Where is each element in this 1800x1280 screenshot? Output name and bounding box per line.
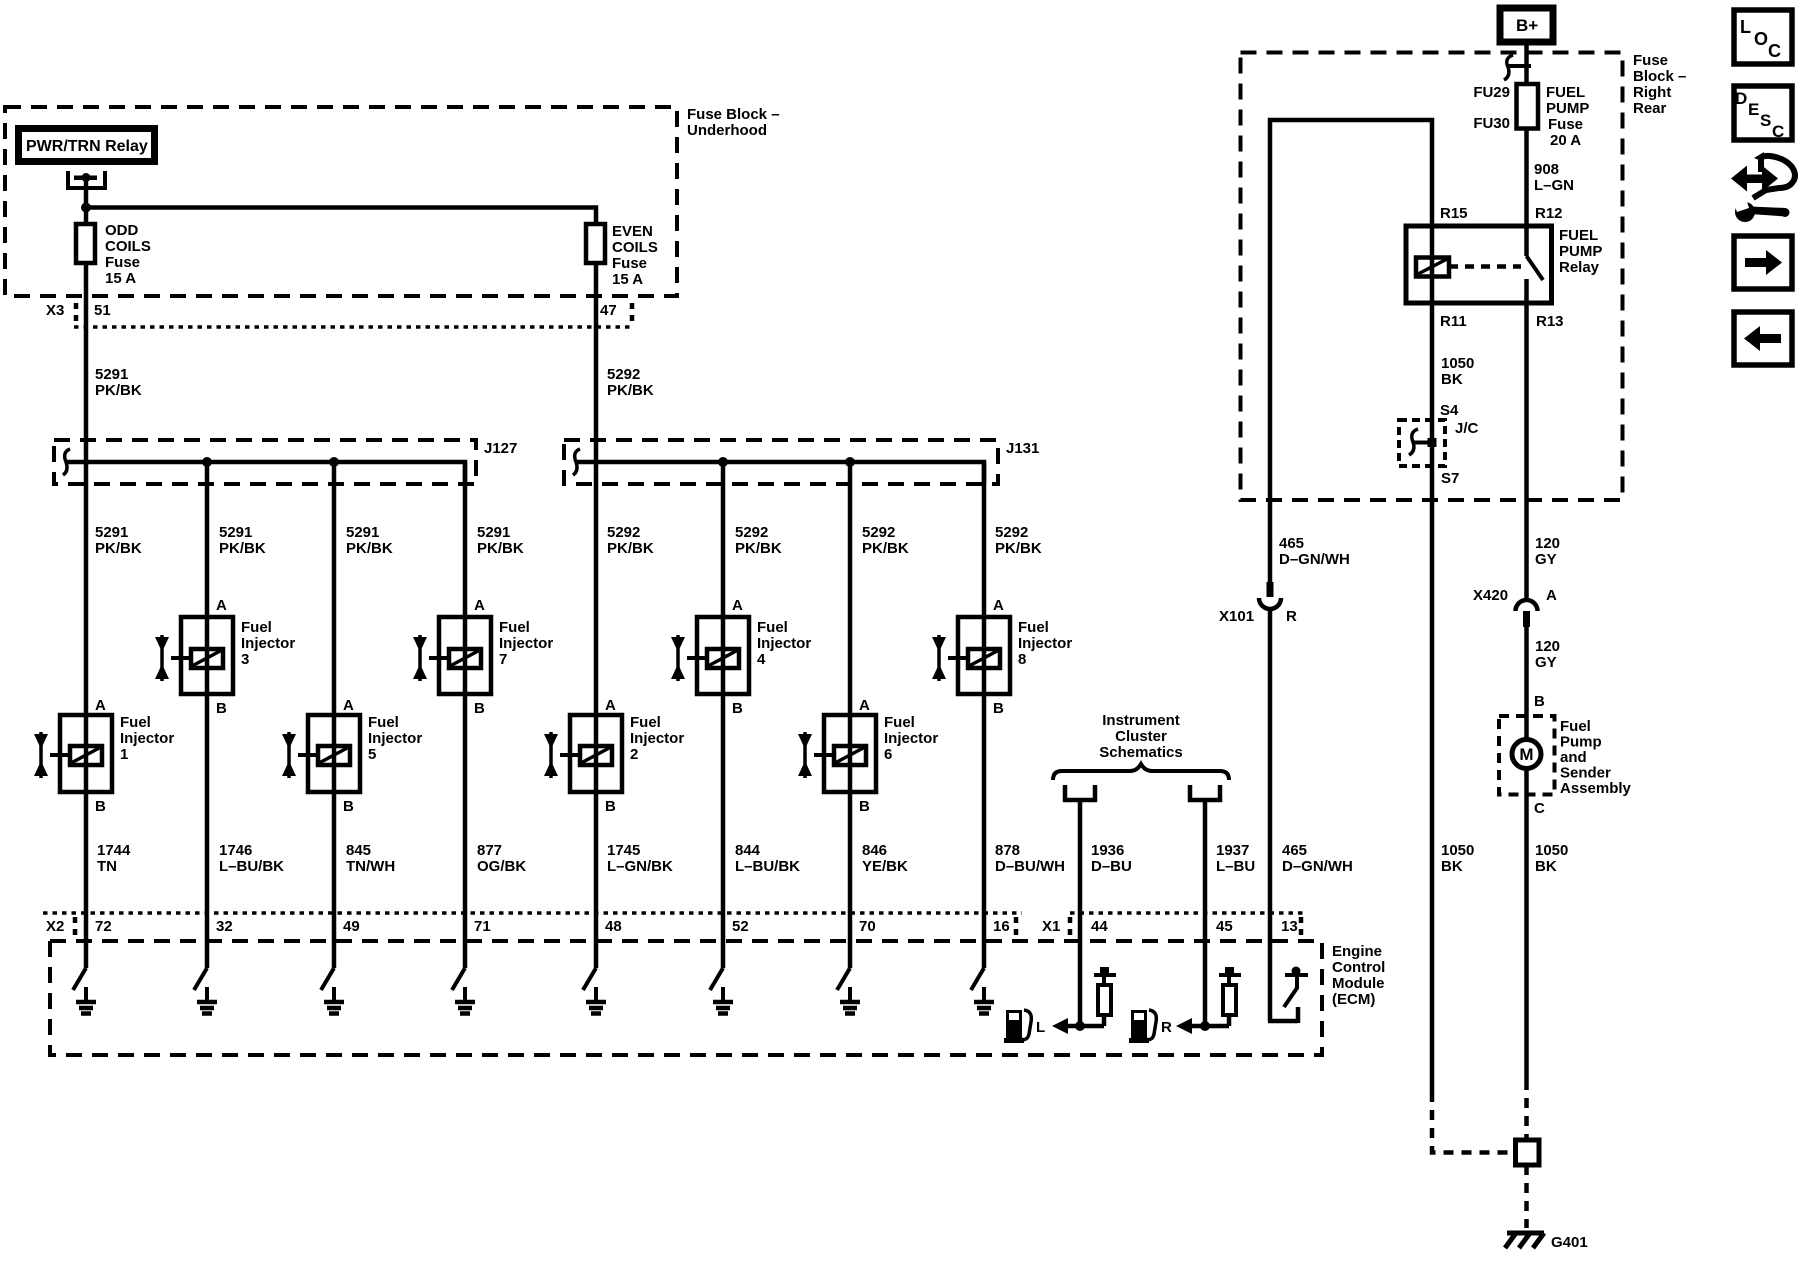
svg-text:BK: BK [1441, 371, 1463, 388]
svg-text:Sender: Sender [1560, 765, 1611, 782]
wire pump C down (1050 BK) [1524, 770, 1529, 1080]
fuel injector 6 [798, 697, 938, 815]
fuel injector 5 [282, 697, 422, 815]
splice J131 curl [573, 449, 580, 475]
splice J127 bus [66, 462, 465, 484]
svg-text:Fuse: Fuse [1548, 116, 1583, 133]
hidden ground wire from pump C [1524, 1080, 1529, 1140]
ECM pull-up resistor R [1227, 1015, 1232, 1026]
wire fuse to relay R12 (908 L-GN) [1524, 128, 1529, 226]
svg-text:49: 49 [343, 918, 360, 935]
svg-text:PK/BK: PK/BK [995, 540, 1042, 557]
svg-text:D–GN/WH: D–GN/WH [1279, 551, 1350, 568]
wire R11 to S4 (1050 BK) [1430, 303, 1435, 1092]
svg-text:Assembly: Assembly [1560, 780, 1632, 797]
wire injector 7 branch [463, 462, 468, 941]
wire cluster L sender to ECM pin 44 [1078, 802, 1083, 1026]
relay switch contact [1524, 226, 1529, 256]
svg-text:1746: 1746 [219, 842, 252, 859]
svg-text:D–BU/WH: D–BU/WH [995, 858, 1065, 875]
wire B+ to fuel pump fuse [1524, 42, 1529, 86]
wire injector 4 branch [721, 462, 726, 941]
connector X2/X1 row [43, 911, 1022, 915]
svg-text:PWR/TRN Relay: PWR/TRN Relay [26, 138, 148, 155]
svg-text:878: 878 [995, 842, 1020, 859]
fuel injector 4 [671, 597, 811, 717]
svg-text:PK/BK: PK/BK [607, 382, 654, 399]
fuse block underhood dashed box [5, 107, 677, 296]
junction dot [81, 203, 91, 213]
svg-text:L: L [1740, 17, 1751, 37]
hidden wire to G401 [1524, 1165, 1529, 1228]
svg-text:844: 844 [735, 842, 761, 859]
junction dots J131 [718, 457, 728, 467]
svg-text:BK: BK [1441, 858, 1463, 875]
fuel pump icon L [1004, 1010, 1031, 1043]
svg-text:TN: TN [97, 858, 117, 875]
svg-text:L–BU/BK: L–BU/BK [735, 858, 800, 875]
ECM output driver and ground (injector circuit 8) [971, 941, 994, 1014]
svg-text:3: 3 [241, 651, 249, 668]
svg-text:A: A [95, 697, 106, 714]
svg-text:D: D [1735, 89, 1747, 108]
splice J131 bus [576, 462, 984, 484]
svg-text:Cluster: Cluster [1115, 728, 1167, 745]
ECM fuel level input R: junction [1200, 1021, 1210, 1031]
svg-text:(ECM): (ECM) [1332, 991, 1375, 1008]
splice J127 dashed box [54, 440, 476, 484]
svg-text:47: 47 [600, 302, 617, 319]
svg-text:32: 32 [216, 918, 233, 935]
svg-text:5292: 5292 [607, 524, 640, 541]
svg-text:G401: G401 [1551, 1234, 1588, 1251]
svg-text:TN/WH: TN/WH [346, 858, 395, 875]
svg-text:Rear: Rear [1633, 100, 1667, 117]
fuse ODD COILS 15A [76, 224, 95, 263]
svg-text:B+: B+ [1516, 16, 1538, 35]
svg-text:A: A [605, 697, 616, 714]
svg-text:Fuel: Fuel [630, 714, 661, 731]
svg-text:1050: 1050 [1441, 842, 1474, 859]
svg-text:R: R [1286, 608, 1297, 625]
ECM output driver and ground (injector circuit 4) [452, 941, 475, 1014]
svg-text:Fuse: Fuse [1633, 52, 1668, 69]
wire EVEN fuse down through X3-47 [594, 263, 599, 462]
ground junction block [1516, 1140, 1540, 1165]
svg-text:PUMP: PUMP [1546, 100, 1589, 117]
svg-text:Right: Right [1633, 84, 1671, 101]
svg-text:Relay: Relay [1559, 259, 1600, 276]
svg-text:PK/BK: PK/BK [95, 540, 142, 557]
svg-text:1: 1 [120, 746, 128, 763]
relay dashed actuating link [1449, 264, 1521, 269]
wire injector 6 branch [848, 462, 853, 941]
splice J131 dashed box [564, 440, 998, 484]
svg-text:120: 120 [1535, 535, 1560, 552]
svg-text:1936: 1936 [1091, 842, 1124, 859]
svg-text:Injector: Injector [241, 635, 295, 652]
svg-text:44: 44 [1091, 918, 1108, 935]
svg-text:PK/BK: PK/BK [735, 540, 782, 557]
svg-text:1745: 1745 [607, 842, 640, 859]
wire R13 to X420 (120 GY) [1524, 303, 1529, 600]
svg-text:15 A: 15 A [612, 271, 643, 288]
svg-text:M: M [1519, 745, 1533, 764]
wire relay to ODD fuse [84, 180, 89, 226]
wire injector 8 branch [982, 462, 987, 941]
inline connector X420 pin A [1516, 600, 1538, 611]
svg-text:Underhood: Underhood [687, 122, 767, 139]
svg-text:B: B [993, 700, 1004, 717]
svg-text:13: 13 [1281, 918, 1298, 935]
svg-text:X3: X3 [46, 302, 64, 319]
svg-text:15 A: 15 A [105, 270, 136, 287]
svg-text:PK/BK: PK/BK [346, 540, 393, 557]
svg-text:5291: 5291 [477, 524, 510, 541]
svg-text:B: B [605, 798, 616, 815]
svg-text:5292: 5292 [607, 366, 640, 383]
svg-text:S: S [1760, 111, 1771, 130]
cluster connector L (fuel gauge left) [1063, 785, 1097, 802]
svg-text:Fuel: Fuel [757, 619, 788, 636]
svg-text:EVEN: EVEN [612, 223, 653, 240]
ECM output driver and ground (injector circuit 3) [321, 941, 344, 1014]
svg-text:52: 52 [732, 918, 749, 935]
svg-text:120: 120 [1535, 638, 1560, 655]
fuel pump icon R [1129, 1010, 1156, 1043]
wire injector 2 branch [594, 462, 599, 941]
svg-text:Fuel: Fuel [499, 619, 530, 636]
splice J127 curl [63, 449, 70, 475]
cluster connector R (fuel gauge right) [1188, 785, 1222, 802]
svg-text:O: O [1754, 29, 1768, 49]
svg-text:R13: R13 [1536, 313, 1564, 330]
svg-text:Schematics: Schematics [1099, 744, 1182, 761]
ECM dashed box [50, 941, 1322, 1055]
svg-text:5291: 5291 [95, 524, 128, 541]
wire ODD fuse down through X3-51 [84, 263, 89, 462]
svg-text:B: B [343, 798, 354, 815]
svg-text:4: 4 [757, 651, 766, 668]
svg-text:R: R [1161, 1019, 1172, 1036]
svg-text:D–BU: D–BU [1091, 858, 1132, 875]
icon LOC box [1734, 10, 1792, 64]
svg-text:S4: S4 [1440, 402, 1459, 419]
svg-text:Fuse Block –: Fuse Block – [687, 106, 780, 123]
svg-text:B: B [732, 700, 743, 717]
svg-text:PK/BK: PK/BK [607, 540, 654, 557]
svg-text:Fuel: Fuel [884, 714, 915, 731]
svg-text:OG/BK: OG/BK [477, 858, 526, 875]
svg-text:X420: X420 [1473, 587, 1508, 604]
svg-text:5291: 5291 [219, 524, 252, 541]
ECM pull-up resistor L [1102, 1015, 1107, 1026]
svg-text:A: A [1546, 587, 1557, 604]
svg-text:S7: S7 [1441, 470, 1459, 487]
svg-text:GY: GY [1535, 654, 1557, 671]
svg-text:48: 48 [605, 918, 622, 935]
svg-text:L–BU/BK: L–BU/BK [219, 858, 284, 875]
ground G401 [1505, 1233, 1544, 1248]
svg-text:C: C [1534, 800, 1545, 817]
svg-text:45: 45 [1216, 918, 1233, 935]
svg-text:Fuel: Fuel [241, 619, 272, 636]
fuse block right rear dashed box [1241, 53, 1623, 501]
svg-text:Injector: Injector [1018, 635, 1072, 652]
inline connector X101 pin R [1267, 582, 1274, 597]
svg-text:Injector: Injector [884, 730, 938, 747]
svg-text:6: 6 [884, 746, 892, 763]
svg-text:Injector: Injector [757, 635, 811, 652]
svg-text:Fuel: Fuel [120, 714, 151, 731]
svg-text:L–BU: L–BU [1216, 858, 1255, 875]
svg-text:COILS: COILS [612, 239, 658, 256]
svg-text:1744: 1744 [97, 842, 131, 859]
icon DESC box [1734, 86, 1792, 140]
ECM output driver and ground (injector circuit 6) [710, 941, 733, 1014]
icon forward arrow box [1734, 236, 1792, 289]
svg-text:Block –: Block – [1633, 68, 1686, 85]
svg-text:72: 72 [95, 918, 112, 935]
wire ECM pin13 up and over to relay R15 [1270, 120, 1432, 582]
svg-text:Injector: Injector [120, 730, 174, 747]
svg-text:Injector: Injector [499, 635, 553, 652]
svg-text:51: 51 [94, 302, 111, 319]
svg-text:L–GN/BK: L–GN/BK [607, 858, 673, 875]
svg-text:846: 846 [862, 842, 887, 859]
svg-text:A: A [343, 697, 354, 714]
svg-text:FU30: FU30 [1473, 115, 1510, 132]
fuse holder terminal FU29 [1508, 64, 1531, 68]
ECM fuel level input R: signal line with arrow [1188, 1024, 1229, 1029]
fuel pump relay box [1406, 226, 1552, 303]
wire injector 5 branch [332, 462, 337, 941]
svg-text:Engine: Engine [1332, 943, 1382, 960]
ECM fuel level input L: junction [1075, 1021, 1085, 1031]
svg-text:5: 5 [368, 746, 376, 763]
svg-text:A: A [732, 597, 743, 614]
fuse EVEN COILS 15A [586, 224, 605, 263]
svg-text:X1: X1 [1042, 918, 1060, 935]
svg-text:Module: Module [1332, 975, 1385, 992]
fuel injector 7 [413, 597, 553, 717]
svg-text:A: A [993, 597, 1004, 614]
svg-text:1937: 1937 [1216, 842, 1249, 859]
svg-text:BK: BK [1535, 858, 1557, 875]
svg-text:R11: R11 [1440, 313, 1467, 330]
svg-text:D–GN/WH: D–GN/WH [1282, 858, 1353, 875]
svg-text:B: B [216, 700, 227, 717]
fuel pump motor M [1512, 740, 1541, 769]
svg-text:L–GN: L–GN [1534, 177, 1574, 194]
svg-text:Control: Control [1332, 959, 1385, 976]
svg-text:Injector: Injector [630, 730, 684, 747]
svg-text:5292: 5292 [995, 524, 1028, 541]
fuel injector 1 [34, 697, 174, 815]
svg-text:FUEL: FUEL [1546, 84, 1585, 101]
svg-text:Fuel: Fuel [1560, 718, 1591, 735]
svg-text:5292: 5292 [862, 524, 895, 541]
svg-text:PK/BK: PK/BK [95, 382, 142, 399]
svg-text:ODD: ODD [105, 222, 139, 239]
svg-text:J127: J127 [484, 440, 517, 457]
svg-text:PK/BK: PK/BK [862, 540, 909, 557]
battery positive voltage B+ [1500, 8, 1553, 42]
svg-text:L: L [1036, 1019, 1045, 1036]
svg-text:5291: 5291 [346, 524, 379, 541]
wire injector 3 branch [205, 462, 210, 941]
wire horizontal to EVEN fuse [86, 208, 596, 227]
svg-text:8: 8 [1018, 651, 1026, 668]
wire cluster R sender to ECM pin 45 [1203, 802, 1208, 1026]
svg-text:1050: 1050 [1535, 842, 1568, 859]
svg-text:X101: X101 [1219, 608, 1254, 625]
svg-text:C: C [1772, 122, 1784, 141]
svg-text:908: 908 [1534, 161, 1559, 178]
svg-text:PUMP: PUMP [1559, 243, 1602, 260]
svg-text:and: and [1560, 749, 1587, 766]
svg-text:YE/BK: YE/BK [862, 858, 908, 875]
svg-text:A: A [216, 597, 227, 614]
svg-text:E: E [1748, 100, 1759, 119]
svg-text:FU29: FU29 [1473, 84, 1510, 101]
svg-text:7: 7 [499, 651, 507, 668]
svg-text:PK/BK: PK/BK [477, 540, 524, 557]
svg-text:GY: GY [1535, 551, 1557, 568]
wire X420 to pump pin B (120 GY) [1524, 627, 1529, 738]
hidden ground wire from S7 branch [1432, 1092, 1514, 1153]
svg-text:X2: X2 [46, 918, 64, 935]
PWR/TRN Relay label box [19, 129, 155, 162]
svg-text:5292: 5292 [735, 524, 768, 541]
svg-text:Instrument: Instrument [1102, 712, 1180, 729]
icon repair info (arrows and wrench) [1731, 152, 1795, 222]
svg-text:Pump: Pump [1560, 734, 1602, 751]
svg-text:20 A: 20 A [1550, 132, 1581, 149]
svg-text:C: C [1768, 41, 1781, 61]
ECM fuel level input L: signal line with arrow [1064, 1024, 1104, 1029]
relay coil [1430, 226, 1435, 303]
svg-text:Fuse: Fuse [612, 255, 647, 272]
svg-text:465: 465 [1282, 842, 1307, 859]
fuel injector 3 [155, 597, 295, 717]
icon back arrow box [1734, 312, 1792, 365]
svg-text:J131: J131 [1006, 440, 1039, 457]
ECM output driver and ground (injector circuit 2) [194, 941, 217, 1014]
wire injector 1 branch [84, 462, 89, 941]
svg-text:FUEL: FUEL [1559, 227, 1598, 244]
svg-text:Fuel: Fuel [368, 714, 399, 731]
junction dots J127 [202, 457, 212, 467]
svg-text:Fuse: Fuse [105, 254, 140, 271]
svg-text:5291: 5291 [95, 366, 128, 383]
ECM fuel pump relay driver (pin 13) [1268, 941, 1308, 1023]
svg-text:2: 2 [630, 746, 638, 763]
ECM output driver and ground (injector circuit 7) [837, 941, 860, 1014]
svg-text:B: B [1534, 693, 1545, 710]
svg-text:R15: R15 [1440, 205, 1468, 222]
ECM output driver and ground (injector circuit 1) [73, 941, 96, 1014]
fuel injector 2 [544, 697, 684, 815]
svg-text:71: 71 [474, 918, 491, 935]
svg-text:PK/BK: PK/BK [219, 540, 266, 557]
svg-text:A: A [474, 597, 485, 614]
svg-text:B: B [859, 798, 870, 815]
instrument cluster brace [1053, 764, 1229, 780]
fuel injector 8 [932, 597, 1072, 717]
svg-text:A: A [859, 697, 870, 714]
svg-text:70: 70 [859, 918, 876, 935]
svg-text:845: 845 [346, 842, 371, 859]
svg-text:J/C: J/C [1455, 420, 1479, 437]
svg-text:R12: R12 [1535, 205, 1563, 222]
ECM output driver and ground (injector circuit 5) [583, 941, 606, 1014]
PWR/TRN relay contact symbol [68, 171, 105, 188]
svg-text:465: 465 [1279, 535, 1304, 552]
fuse FUEL PUMP 20 A [1517, 84, 1539, 129]
svg-text:B: B [95, 798, 106, 815]
svg-text:1050: 1050 [1441, 355, 1474, 372]
svg-text:877: 877 [477, 842, 502, 859]
svg-text:Injector: Injector [368, 730, 422, 747]
svg-text:COILS: COILS [105, 238, 151, 255]
svg-text:Fuel: Fuel [1018, 619, 1049, 636]
svg-text:B: B [474, 700, 485, 717]
svg-text:16: 16 [993, 918, 1010, 935]
